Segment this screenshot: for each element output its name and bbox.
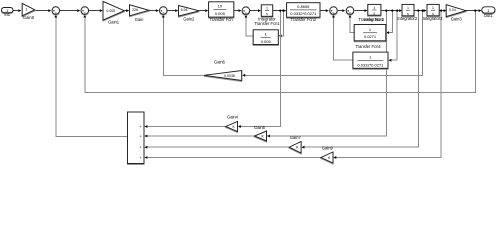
wire Sum3 to Gain2 bbox=[168, 10, 176, 12]
wire Integrator3 to Gain3 bbox=[439, 10, 444, 12]
gain Gain9 bbox=[321, 152, 333, 163]
svg-text:1: 1 bbox=[266, 7, 268, 11]
svg-text:Transfer Fcn4: Transfer Fcn4 bbox=[355, 44, 381, 49]
svg-text:1: 1 bbox=[432, 6, 434, 10]
sum Add block bbox=[128, 112, 145, 164]
svg-text:0.0035: 0.0035 bbox=[224, 74, 235, 78]
wire tap to Transfer Fcn4 input bbox=[389, 11, 392, 33]
wire Gain7 output to Add block bbox=[147, 146, 289, 148]
gain Gain6 bbox=[204, 71, 242, 81]
input port In1 bbox=[2, 8, 14, 13]
svg-text:1: 1 bbox=[25, 8, 27, 12]
gain Gain2 bbox=[179, 6, 200, 17]
sum Sum2 bbox=[81, 7, 89, 15]
sum Sum6 bbox=[346, 7, 354, 15]
wire tap to Gain9 input bbox=[336, 11, 441, 158]
wire Gain9 output to Add block bbox=[147, 157, 321, 159]
svg-text:Gain: Gain bbox=[135, 17, 144, 22]
svg-text:Transfer Fcn1: Transfer Fcn1 bbox=[254, 21, 280, 26]
wire Gain6 output to Sum3 bottom bbox=[163, 17, 204, 75]
wire tap to Gain7 input bbox=[304, 11, 418, 148]
wire Gain1 to Gain bbox=[124, 10, 126, 12]
svg-text:1: 1 bbox=[373, 6, 375, 10]
svg-text:Gain2: Gain2 bbox=[183, 16, 195, 21]
wire Sum6 to Integrator1 bbox=[355, 10, 365, 12]
svg-text:Gain8: Gain8 bbox=[23, 15, 35, 20]
svg-text:0.0332*0.0271: 0.0332*0.0271 bbox=[357, 62, 384, 67]
junction node to Gain7 bbox=[417, 10, 419, 12]
svg-text:0.005: 0.005 bbox=[261, 39, 272, 44]
wire Transfer Fcn2 to Sum5 bbox=[320, 10, 326, 12]
wire feedback Add block to Sum1 bottom bbox=[56, 17, 128, 136]
wire Sum5 to Sum6 bbox=[338, 10, 342, 12]
svg-text:s: s bbox=[373, 12, 375, 16]
junction node to Gain6 bbox=[422, 10, 424, 12]
svg-text:6.94: 6.94 bbox=[181, 8, 188, 12]
wire Integrator2 to Integrator3 bbox=[414, 10, 424, 12]
transfer function Transfer Fcn4 bbox=[354, 25, 386, 41]
gain Gain bbox=[130, 5, 149, 16]
svg-text:Gain4: Gain4 bbox=[227, 114, 239, 119]
svg-text:Gain6: Gain6 bbox=[214, 60, 226, 65]
svg-text:+: + bbox=[139, 125, 141, 129]
svg-text:0.8655: 0.8655 bbox=[297, 4, 310, 9]
integrator Integrator1 bbox=[368, 4, 381, 15]
transfer function Transfer Fcn2 bbox=[287, 3, 320, 18]
svg-text:Gain9: Gain9 bbox=[322, 146, 334, 151]
svg-text:Gain5: Gain5 bbox=[254, 125, 266, 130]
integrator Integrator2 bbox=[402, 4, 414, 15]
wire Sum1 to Sum2 bbox=[60, 10, 77, 12]
svg-text:Transfer Fcn: Transfer Fcn bbox=[210, 17, 234, 22]
junction node to Gain5 bbox=[385, 10, 387, 12]
wire tap to Transfer Fcn1 input bbox=[282, 11, 284, 36]
wire Gain5 output to Add block bbox=[147, 135, 254, 137]
svg-text:Gain3: Gain3 bbox=[451, 17, 463, 22]
sum Sum4 bbox=[242, 7, 250, 15]
svg-text:10: 10 bbox=[218, 4, 223, 9]
junction node after Integrator bbox=[279, 10, 281, 12]
svg-text:0.0271: 0.0271 bbox=[364, 34, 377, 39]
svg-text:+: + bbox=[139, 135, 141, 139]
svg-text:Gain1: Gain1 bbox=[108, 20, 120, 25]
output port Out1 bbox=[482, 7, 495, 13]
svg-text:0.005: 0.005 bbox=[215, 11, 226, 16]
gain Gain1 bbox=[103, 1, 124, 20]
svg-text:Integrator1: Integrator1 bbox=[364, 17, 385, 22]
wire tap to Gain5 input bbox=[270, 11, 387, 136]
wire Transfer Fcn5 output to Sum5 bottom bbox=[334, 17, 353, 60]
svg-text:0.005: 0.005 bbox=[106, 9, 115, 13]
svg-text:Transfer Fcn2: Transfer Fcn2 bbox=[291, 17, 317, 22]
wire Integrator1 to Integrator2 bbox=[381, 10, 399, 12]
junction node to Transfer Fcn5 bbox=[396, 10, 398, 12]
wire tap to Gain4 input bbox=[241, 11, 280, 127]
wire Transfer Fcn1 output to Sum4 bottom bbox=[246, 17, 253, 35]
sum Sum3 bbox=[160, 7, 168, 15]
svg-text:+: + bbox=[139, 156, 141, 160]
wire Sum4 to Integrator bbox=[250, 10, 258, 12]
wire Gain4 output to Add block bbox=[147, 126, 226, 128]
wire Transfer Fcn4 output to Sum6 bottom bbox=[350, 17, 354, 32]
wire tap to Transfer Fcn5 input bbox=[391, 11, 397, 61]
svg-text:Out1: Out1 bbox=[484, 13, 494, 18]
wire Gain2 to Transfer Fcn bbox=[199, 10, 205, 12]
wire Sum2 to Gain1 bbox=[89, 10, 100, 12]
gain Gain4 bbox=[226, 122, 238, 132]
gain Gain3 bbox=[446, 5, 466, 17]
svg-text:0.0332*0.0271: 0.0332*0.0271 bbox=[290, 11, 317, 16]
svg-text:226: 226 bbox=[132, 8, 138, 12]
wire Gain to Sum3 bbox=[149, 10, 156, 12]
sum Sum1 bbox=[52, 7, 60, 15]
wire Integrator to Transfer Fcn2 bbox=[273, 10, 284, 12]
integrator Integrator bbox=[261, 5, 272, 16]
svg-text:+: + bbox=[139, 146, 141, 150]
wire Gain8 to Sum1 bbox=[35, 10, 48, 12]
junction node to Transfer Fcn1 bbox=[282, 10, 284, 12]
svg-text:Integrator3: Integrator3 bbox=[423, 16, 444, 21]
junction node to Transfer Fcn4 bbox=[391, 10, 393, 12]
svg-text:1: 1 bbox=[407, 6, 409, 10]
transfer function Transfer Fcn bbox=[209, 2, 234, 17]
svg-text:Gain7: Gain7 bbox=[290, 135, 302, 140]
svg-text:Integrator2: Integrator2 bbox=[397, 16, 418, 21]
gain Gain8 bbox=[22, 3, 35, 15]
transfer function Transfer Fcn5 bbox=[353, 52, 388, 68]
junction node to Sum2 feedback bbox=[474, 10, 476, 12]
wire Gain3 to Out1 bbox=[466, 10, 479, 12]
wire feedback Out1 node to Sum2 bottom bbox=[85, 11, 476, 93]
gain Gain5 bbox=[255, 131, 267, 141]
wire Transfer Fcn to Sum4 bbox=[234, 10, 239, 12]
svg-text:0.04: 0.04 bbox=[449, 8, 456, 12]
junction node to Gain9 bbox=[440, 10, 442, 12]
wire feedback tap to Gain6 input bbox=[245, 11, 423, 76]
svg-text:In1: In1 bbox=[4, 12, 10, 17]
wire In1 to Gain8 bbox=[13, 10, 19, 12]
integrator Integrator3 bbox=[427, 4, 439, 15]
gain Gain7 bbox=[289, 142, 301, 154]
sum Sum5 bbox=[330, 7, 338, 15]
svg-text:s: s bbox=[266, 12, 268, 16]
transfer function Transfer Fcn1 bbox=[253, 30, 278, 45]
